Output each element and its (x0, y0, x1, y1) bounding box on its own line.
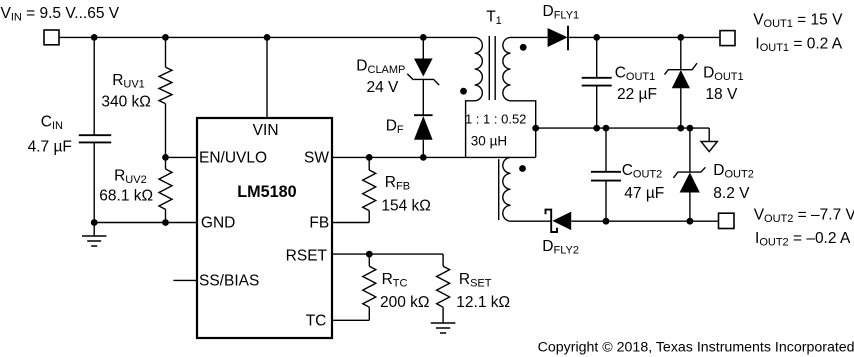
svg-text:VIN = 9.5 V...65 V: VIN = 9.5 V...65 V (1, 5, 120, 24)
node: DCLAMP top junction (420, 34, 427, 41)
wire: SS/BIAS stub (173, 279, 197, 281)
node: secondary 1 phase dot (520, 44, 527, 51)
svg-text:12.1 kΩ: 12.1 kΩ (456, 294, 510, 311)
svg-text:VOUT2 = –7.7 V: VOUT2 = –7.7 V (754, 207, 854, 226)
svg-text:200 kΩ: 200 kΩ (380, 294, 430, 311)
node: COUT1 top junction (593, 34, 600, 41)
wire: DF to SW rail (422, 140, 424, 158)
wire: SW rail (333, 156, 466, 158)
svg-text:30 µH: 30 µH (471, 133, 507, 148)
node: DOUT2 top junction (687, 125, 694, 132)
svg-text:CIN: CIN (41, 114, 63, 133)
wire: DCLAMP top stub (422, 37, 424, 58)
svg-text:IOUT1 = 0.2 A: IOUT1 = 0.2 A (755, 35, 842, 54)
svg-text:GND: GND (201, 214, 235, 231)
svg-text:DOUT1: DOUT1 (703, 64, 744, 83)
svg-text:EN/UVLO: EN/UVLO (199, 150, 267, 167)
svg-text:154 kΩ: 154 kΩ (381, 197, 431, 214)
svg-text:24 V: 24 V (367, 79, 400, 96)
capacitor COUT2 (591, 128, 621, 221)
diode DF (414, 115, 433, 140)
svg-text:DFLY1: DFLY1 (543, 3, 580, 22)
wire: ground rail to GND pin (94, 222, 197, 224)
node: COUT1 bottom junction (593, 125, 600, 132)
svg-text:SW: SW (304, 150, 329, 167)
svg-text:VOUT1 = 15 V: VOUT1 = 15 V (753, 12, 843, 31)
svg-text:Copyright © 2018, Texas Instru: Copyright © 2018, Texas Instruments Inco… (538, 339, 854, 355)
transformer T1 primary winding (466, 37, 483, 157)
svg-text:RSET: RSET (286, 248, 328, 265)
wire: transformer box bottom edge (SW net) (466, 156, 536, 158)
zener diode DOUT1 (665, 37, 698, 128)
node: transformer mid junction (532, 125, 539, 132)
node: DOUT1 bottom junction (677, 125, 684, 132)
node: RTC top junction (366, 251, 373, 258)
svg-text:RUV2: RUV2 (114, 168, 147, 187)
wire: FB pin (333, 222, 370, 224)
svg-text:TC: TC (306, 312, 327, 329)
op-amp U1 LM5180 IC box (197, 118, 332, 338)
node: secondary 2 phase dot (519, 165, 526, 172)
svg-text:VIN: VIN (253, 122, 279, 139)
node: RUV2 bottom junction (162, 219, 169, 226)
node: COUT2 top junction (603, 125, 610, 132)
node: DOUT2 bottom junction (687, 218, 694, 225)
wire: mid rail (output common) (536, 127, 710, 129)
node: RFB top junction (366, 154, 373, 161)
svg-text:RFB: RFB (385, 174, 410, 193)
transformer T1 secondary 2 winding (503, 157, 511, 221)
node: CIN top junction (91, 34, 98, 41)
resistor RFB (363, 157, 376, 222)
wire: VOUT1 rail (568, 36, 720, 38)
wire: VIN pin (266, 37, 268, 118)
output terminal VOUT2 (719, 213, 735, 228)
wire: secondary 2 bottom to DFLY2 (511, 220, 552, 222)
svg-text:18 V: 18 V (705, 86, 738, 103)
input terminal VIN (44, 30, 59, 45)
svg-text:T1: T1 (486, 9, 502, 28)
node: CIN bottom junction (91, 219, 98, 226)
svg-text:340 kΩ: 340 kΩ (101, 93, 151, 110)
node: DF bottom junction (420, 154, 427, 161)
svg-text:22 µF: 22 µF (617, 86, 657, 103)
svg-text:4.7 µF: 4.7 µF (28, 139, 72, 156)
svg-text:COUT2: COUT2 (622, 162, 663, 181)
svg-text:FB: FB (309, 214, 329, 231)
svg-text:DFLY2: DFLY2 (542, 238, 579, 256)
wire: DCLAMP to DF (422, 79, 424, 115)
wire: TC pin (333, 319, 370, 321)
node: primary phase dot (460, 88, 467, 95)
node: VIN pin junction (264, 34, 271, 41)
svg-text:1 : 1 : 0.52: 1 : 1 : 0.52 (465, 111, 526, 126)
ground (RSET) (431, 323, 456, 333)
transformer T1 core (bottom) (498, 159, 500, 220)
zener diode DCLAMP (407, 59, 439, 86)
wire: input top rail (59, 36, 475, 38)
schottky diode DFLY2 (546, 210, 572, 232)
svg-text:8.2 V: 8.2 V (713, 185, 750, 202)
svg-text:LM5180: LM5180 (237, 183, 296, 201)
transformer T1 secondary 1 winding (503, 37, 536, 157)
wire: VOUT2 rail (571, 220, 718, 222)
ground (input) (82, 223, 106, 247)
resistor RTC (363, 254, 376, 320)
wire: EN/UVLO pin (166, 156, 198, 158)
svg-text:RUV1: RUV1 (112, 72, 145, 91)
node: DOUT1 top junction (677, 34, 684, 41)
svg-text:SS/BIAS: SS/BIAS (199, 273, 259, 290)
svg-text:DOUT2: DOUT2 (713, 162, 754, 181)
wire: secondary 1 top to DFLY1 (511, 36, 548, 38)
svg-text:68.1 kΩ: 68.1 kΩ (99, 187, 153, 204)
svg-text:RTC: RTC (382, 271, 408, 290)
diode DFLY1 (548, 26, 568, 51)
node: RUV1 top junction (162, 34, 169, 41)
resistor RSET (437, 254, 450, 323)
capacitor COUT1 (582, 37, 612, 128)
svg-text:DF: DF (386, 118, 404, 137)
svg-text:RSET: RSET (459, 271, 492, 290)
node: EN/UVLO junction (162, 154, 169, 161)
svg-text:47 µF: 47 µF (624, 185, 664, 202)
output terminal VOUT1 (720, 31, 735, 46)
ground (output, arrow symbol) (701, 128, 717, 152)
transformer T1 core (top) (489, 36, 495, 100)
svg-text:COUT1: COUT1 (615, 64, 656, 83)
resistor RUV2 (159, 169, 172, 223)
node: COUT2 bottom junction (603, 218, 610, 225)
zener diode DOUT2 (673, 128, 705, 221)
capacitor C_IN (79, 37, 111, 222)
wire: RSET pin rail (333, 253, 444, 255)
resistor RUV1 (159, 37, 172, 169)
svg-text:IOUT2 = –0.2 A: IOUT2 = –0.2 A (755, 230, 851, 249)
svg-text:DCLAMP: DCLAMP (356, 58, 405, 77)
